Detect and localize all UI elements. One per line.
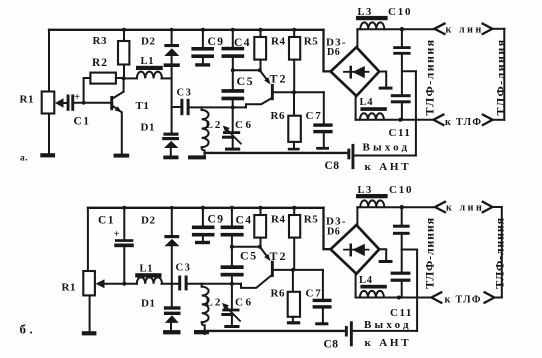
svg-text:D6: D6 xyxy=(327,227,340,238)
svg-text:ТЛФ-линия: ТЛФ-линия xyxy=(423,217,437,289)
svg-text:L3: L3 xyxy=(358,185,373,196)
inductor L4 core bar xyxy=(360,107,386,111)
R1 wiper arrowhead (b) xyxy=(96,279,105,288)
C6 bottom stub (b) xyxy=(231,316,233,326)
diode D2 triangle xyxy=(164,48,179,56)
wire R6 top lead (b) xyxy=(292,270,294,292)
wire L1 right to D node (b) xyxy=(162,283,179,285)
terminal arrow k LIN left (b) xyxy=(435,202,445,212)
svg-text:L2: L2 xyxy=(206,297,223,309)
inductor L3 core bar (b) xyxy=(356,194,388,198)
wire R5 bottom lead xyxy=(293,60,295,93)
diode D1 triangle (b) xyxy=(165,315,179,323)
svg-text:C3: C3 xyxy=(176,263,192,274)
wire emitter row (b) xyxy=(232,246,260,248)
transistor T2 emitter diagonal (b) xyxy=(260,247,268,257)
resistor R4 xyxy=(254,37,266,60)
L2 bottom bend (b) xyxy=(202,322,205,334)
wire L3 baseline (b) xyxy=(357,206,435,208)
R6 bottom stub (b) xyxy=(292,317,294,323)
wire C7 top lead (b) xyxy=(322,270,324,299)
wire C1 top lead (b) xyxy=(123,208,125,239)
wire C5 to C6 (b) xyxy=(231,277,233,309)
wire emitter row xyxy=(233,69,260,71)
wire output loop vertical xyxy=(415,71,417,155)
svg-text:ТЛФ-линия: ТЛФ-линия xyxy=(493,217,507,289)
terminal arrow k LIN left xyxy=(434,24,444,34)
bar under bridge right output xyxy=(379,87,393,90)
wire R1 bottom lead (b) xyxy=(89,295,91,331)
ground bar under C9 xyxy=(195,63,210,66)
C9 bottom stub (b) xyxy=(202,237,204,242)
wire TLF to right loop (b) xyxy=(494,297,502,299)
node TLF junction xyxy=(398,118,402,122)
capacitor C5 bottom plate (b) xyxy=(221,273,244,277)
capacitor C8 right plate (b) xyxy=(350,321,353,346)
node collector junction xyxy=(122,76,126,80)
resistor R6 xyxy=(288,116,301,142)
resistor R1 (potentiometer body) xyxy=(42,92,55,114)
capacitor C11 top plate xyxy=(391,94,411,97)
capacitor C3 left plate xyxy=(180,99,183,115)
svg-text:+: + xyxy=(114,229,120,240)
wire C1 bottom lead (b) xyxy=(123,247,125,284)
resistor R4 (b) xyxy=(254,215,266,238)
svg-text:C6: C6 xyxy=(235,297,253,309)
wire D2 to C3 node to D1 xyxy=(171,67,173,133)
trimmer C6 arrowhead xyxy=(223,126,230,133)
wire R4 top lead (b) xyxy=(260,208,262,215)
svg-text:C11: C11 xyxy=(389,127,412,139)
svg-text:C11: C11 xyxy=(390,307,413,319)
wire C10 to C11 xyxy=(401,55,403,94)
terminal arrow k LIN right xyxy=(483,24,493,34)
node row/C6 (b) xyxy=(230,282,234,286)
R6 bottom stub xyxy=(293,142,295,148)
svg-text:R1: R1 xyxy=(62,282,76,294)
capacitor C10 bottom plate (b) xyxy=(393,232,410,235)
svg-text:R6: R6 xyxy=(271,288,285,300)
capacitor C7 bottom plate (b) xyxy=(313,305,332,308)
svg-text:R4: R4 xyxy=(271,214,285,226)
inductor L2 windings (b) xyxy=(202,287,209,323)
capacitor C4 bottom plate (b) xyxy=(221,233,244,237)
svg-text:к лин: к лин xyxy=(446,203,484,214)
capacitor C11 bottom plate (b) xyxy=(391,279,411,282)
terminal arrow k TLF right xyxy=(483,115,493,125)
capacitor C9 bottom plate xyxy=(191,54,214,58)
wire L4 riser (b) xyxy=(355,274,357,298)
node rail/D2 xyxy=(170,28,174,32)
bar under C6 xyxy=(225,148,240,151)
wire right loop top (b) xyxy=(492,206,501,208)
capacitor C3 left plate (b) xyxy=(178,276,181,291)
resistor R5 xyxy=(289,37,300,60)
svg-text:D2: D2 xyxy=(141,36,155,48)
wire R4 bottom lead xyxy=(260,60,262,71)
wire C9 top lead xyxy=(202,30,204,47)
svg-text:L1: L1 xyxy=(140,264,154,275)
bar under C7 xyxy=(316,147,329,150)
diode D1 lower bar (b) xyxy=(164,312,181,315)
trimmer C6 top plate (b) xyxy=(222,309,239,312)
capacitor C10 top plate xyxy=(393,46,410,49)
svg-text:D1: D1 xyxy=(141,121,155,133)
D1 stem (b) xyxy=(170,323,172,330)
trimmer C6 arrow (b) xyxy=(225,306,240,321)
wire bridge right output xyxy=(379,72,386,87)
wire right loop vertical (b) xyxy=(501,207,503,298)
trimmer C6 bottom plate (b) xyxy=(221,313,233,316)
diode D1 triangle xyxy=(164,141,179,148)
C7 bottom stub (b) xyxy=(322,309,324,323)
svg-text:R5: R5 xyxy=(304,214,318,226)
wire C7 top lead xyxy=(323,92,325,123)
node rail/R5 xyxy=(292,28,296,32)
inductor L1 core bar (b) xyxy=(135,273,161,277)
wire right loop top xyxy=(492,28,504,30)
capacitor C7 bottom plate xyxy=(313,130,332,133)
node rail/C9 xyxy=(201,28,205,32)
svg-text:L4: L4 xyxy=(360,97,374,108)
svg-text:T2: T2 xyxy=(270,249,288,263)
inductor L2 top stub xyxy=(201,107,203,110)
svg-text:R5: R5 xyxy=(304,36,318,48)
svg-text:C10: C10 xyxy=(389,184,413,196)
wire rail corner to bridge xyxy=(324,30,331,72)
inductor L3 windings xyxy=(360,22,384,29)
wire C4 to C5 xyxy=(232,58,234,89)
wire C9 top lead (b) xyxy=(202,208,204,226)
node R4/emitter xyxy=(258,68,262,72)
capacitor C3 right plate xyxy=(187,99,190,115)
inductor L1 core bar xyxy=(136,66,163,70)
svg-text:C6: C6 xyxy=(235,119,253,131)
wire L3 baseline xyxy=(357,28,434,30)
wire R2 right lead xyxy=(116,77,124,79)
wire R5 bottom lead (b) xyxy=(293,238,295,270)
trimmer C6 bottom plate xyxy=(222,136,234,139)
bridge inner diode line (b) xyxy=(344,249,369,251)
capacitor C1 right plate xyxy=(71,95,74,111)
bridge inner diode triangle xyxy=(352,66,365,78)
inductor L2 top stub (b) xyxy=(201,284,203,287)
capacitor C4 top plate xyxy=(222,47,245,51)
capacitor C8 left plate xyxy=(347,149,350,160)
D2 stem xyxy=(171,56,173,63)
transistor T2 collector path xyxy=(246,98,272,108)
node rail/R4 xyxy=(259,28,263,32)
wire T1 collector vertical xyxy=(123,78,125,91)
node rail/R5 (b) xyxy=(292,206,296,210)
wire wiper row (b) xyxy=(104,283,137,285)
ground under L2 (b) xyxy=(194,330,209,334)
ground bar under C9 (b) xyxy=(195,241,210,244)
wire R5 top lead (b) xyxy=(293,208,295,215)
svg-text:C1: C1 xyxy=(98,215,115,227)
bridge inner diode bar (b) xyxy=(350,244,353,257)
bar under bridge right output (b) xyxy=(379,260,393,263)
node row/C6 xyxy=(231,105,235,109)
svg-text:C5: C5 xyxy=(240,249,258,263)
C7 bottom stub xyxy=(323,133,325,147)
diode D2 lower bar xyxy=(164,63,180,67)
ground under T1 emitter xyxy=(114,154,130,158)
C6 bottom stub xyxy=(232,139,234,148)
svg-text:D1: D1 xyxy=(141,298,155,310)
wire L4 baseline to TLF arrow xyxy=(356,119,434,121)
svg-text:R2: R2 xyxy=(92,57,108,69)
svg-text:L4: L4 xyxy=(359,275,373,286)
node base/R6 xyxy=(292,90,296,94)
R1 wiper arrowhead xyxy=(55,98,64,107)
capacitor C7 top plate (b) xyxy=(313,299,332,302)
capacitor C4 bottom plate xyxy=(222,54,245,58)
bridge inner diode bar xyxy=(350,66,353,79)
node rail/D2 (b) xyxy=(170,206,174,210)
svg-text:R1: R1 xyxy=(20,93,34,105)
capacitor C7 top plate xyxy=(313,123,332,126)
svg-text:Выход: Выход xyxy=(364,319,412,331)
diode D2 bar (b) xyxy=(164,235,179,238)
wire output loop vertical (b) xyxy=(416,250,418,331)
svg-text:а.: а. xyxy=(20,154,28,164)
wire L1 right to D2 node xyxy=(162,77,172,79)
wire R4 bottom lead (b) xyxy=(260,238,262,247)
resistor R3 xyxy=(118,41,129,65)
transistor T2 collector path (b) xyxy=(241,275,272,288)
svg-text:D2: D2 xyxy=(141,215,155,227)
bridge inner diode triangle (b) xyxy=(352,244,365,256)
svg-text:C10: C10 xyxy=(388,6,412,18)
resistor R2 xyxy=(90,73,116,84)
svg-text:D6: D6 xyxy=(327,47,340,58)
node R4/emitter (b) xyxy=(258,245,262,249)
wire C11 bottom lead xyxy=(401,103,403,119)
node emitter row left xyxy=(231,68,235,72)
svg-text:Выход: Выход xyxy=(363,142,411,154)
svg-text:C9: C9 xyxy=(208,214,225,226)
wire bridge right output (b) xyxy=(379,249,386,260)
svg-text:C3: C3 xyxy=(177,87,193,98)
transistor T2 base bar xyxy=(271,84,274,100)
capacitor C5 bottom plate xyxy=(222,97,245,101)
diode D1 lower bar xyxy=(162,137,179,140)
wire R5 top lead xyxy=(293,30,295,37)
wire R3 bottom lead xyxy=(123,65,125,79)
wire D2 top lead xyxy=(171,30,173,44)
svg-text:к АНТ: к АНТ xyxy=(365,161,412,173)
wire bottom rail of oscillator xyxy=(205,152,348,154)
wire left vertical rail to R1 (b) xyxy=(87,208,89,271)
capacitor C10 bottom plate xyxy=(393,52,410,55)
capacitor C10 top plate (b) xyxy=(393,225,410,228)
ground under R1 xyxy=(40,153,55,157)
wire C5 to C6 xyxy=(232,100,234,131)
diode D1 upper bar (b) xyxy=(164,306,181,309)
capacitor C4 top plate (b) xyxy=(221,226,244,230)
svg-text:к ТЛФ: к ТЛФ xyxy=(445,295,482,306)
bar under C6 (b) xyxy=(224,325,239,328)
svg-text:C8: C8 xyxy=(325,160,340,172)
terminal arrow k LIN right (b) xyxy=(483,202,493,212)
bridge D3-D6 diamond xyxy=(331,47,380,96)
svg-text:C7: C7 xyxy=(306,288,323,300)
node rail/C4 (b) xyxy=(230,206,234,210)
svg-text:к АНТ: к АНТ xyxy=(365,337,412,349)
node TLF junction (b) xyxy=(397,296,401,300)
inductor L3 core bar xyxy=(356,16,388,20)
capacitor C11 top plate (b) xyxy=(391,272,411,275)
wire TLF to right loop xyxy=(493,119,505,121)
svg-text:R3: R3 xyxy=(93,35,107,47)
inductor L4 core bar (b) xyxy=(360,285,386,289)
capacitor C11 bottom plate xyxy=(391,100,411,103)
wire C3 left lead xyxy=(172,106,181,108)
wire oscillator row xyxy=(190,106,246,108)
inductor L4 windings (b) xyxy=(360,291,384,298)
wire T2 base row xyxy=(274,91,324,93)
transistor T1 emitter diagonal xyxy=(113,106,121,111)
bar under C7 (b) xyxy=(315,322,328,325)
wire bottom rail (b) xyxy=(205,330,345,332)
capacitor C9 bottom plate (b) xyxy=(192,233,215,237)
wire R1 bottom lead xyxy=(48,114,50,154)
svg-text:R4: R4 xyxy=(271,36,285,48)
wire right loop vertical xyxy=(503,29,505,120)
transistor T1 base bar xyxy=(110,96,113,110)
terminal arrow k TLF left (b) xyxy=(431,292,441,302)
T2 emitter arrowhead (b) xyxy=(264,254,270,261)
svg-text:б.: б. xyxy=(20,322,37,337)
bar under R6 (b) xyxy=(287,321,300,324)
svg-text:ТЛФ-линия: ТЛФ-линия xyxy=(423,38,437,115)
diode D2 cathode bar xyxy=(164,44,179,47)
transistor T2 emitter diagonal xyxy=(260,70,268,80)
wire D2 to row (b) xyxy=(171,246,173,284)
transistor T1 collector diagonal xyxy=(113,92,124,99)
capacitor C1 thick plate (b) xyxy=(114,244,134,248)
wire L4 baseline to TLF arrow (b) xyxy=(356,297,432,299)
wire C8 to output loop (b) xyxy=(353,330,417,332)
capacitor C1 thin plate (b) xyxy=(115,239,133,242)
wire R4 top lead xyxy=(260,30,262,37)
bridge D3-D6 diamond (b) xyxy=(331,225,380,274)
C9 bottom stub xyxy=(202,58,204,63)
node base/R6 (b) xyxy=(291,268,295,272)
resistor R1 (b) xyxy=(83,271,95,295)
trimmer C6 arrow xyxy=(226,128,241,143)
node LIN junction (b) xyxy=(400,205,404,209)
node rail/R3 xyxy=(122,28,126,32)
capacitor C1 left plate xyxy=(67,95,70,111)
wire top supply rail (b) xyxy=(88,207,324,209)
inductor L2 windings xyxy=(202,110,209,147)
D1 stem xyxy=(170,148,172,156)
T1 emitter arrowhead xyxy=(115,106,122,112)
diode D2 triangle (b) xyxy=(164,239,179,246)
wire C1 to T1 base xyxy=(74,102,110,104)
transistor T2 base bar (b) xyxy=(271,261,274,277)
wire C11 bottom lead (b) xyxy=(401,282,403,298)
svg-text:R6: R6 xyxy=(271,110,285,122)
terminal arrow k TLF left xyxy=(433,115,443,125)
svg-text:+: + xyxy=(74,92,80,103)
capacitor C5 top plate (b) xyxy=(221,265,244,269)
node base/R2 junction xyxy=(82,101,86,105)
wire R3 top lead xyxy=(123,30,125,41)
bar under R6 xyxy=(288,148,300,151)
capacitor C8 right plate xyxy=(352,144,355,169)
T2 emitter arrowhead xyxy=(264,77,270,84)
trimmer C6 top plate xyxy=(223,131,240,134)
capacitor C8 left plate (b) xyxy=(345,326,348,337)
resistor R6 (b) xyxy=(288,292,300,317)
ground under D1 (b) xyxy=(163,330,180,334)
svg-text:к ТЛФ: к ТЛФ xyxy=(445,117,482,128)
wire C4 top lead xyxy=(232,30,234,47)
node emitter row left (b) xyxy=(230,245,234,249)
wire R2 left lead xyxy=(84,78,91,103)
wire oscillator row (b) xyxy=(188,283,241,285)
wire C10 top lead xyxy=(401,29,403,46)
capacitor C9 top plate xyxy=(191,47,214,51)
inductor L3 windings (b) xyxy=(360,200,384,207)
terminal arrow k TLF right (b) xyxy=(485,292,495,302)
wire rail corner to bridge (b) xyxy=(324,208,331,249)
bridge inner diode line xyxy=(344,71,369,73)
node rail/R4 (b) xyxy=(259,206,263,210)
svg-text:C4: C4 xyxy=(236,215,253,227)
wire left vertical from rail to R1 xyxy=(48,30,50,92)
wire C8 to output loop xyxy=(354,155,416,157)
trimmer C6 arrowhead (b) xyxy=(222,303,229,310)
capacitor C9 top plate (b) xyxy=(192,226,215,230)
svg-text:C1: C1 xyxy=(74,116,91,128)
resistor R5 (b) xyxy=(289,215,300,238)
wire link C10/C11 junction xyxy=(402,70,416,72)
inductor L1 windings (b) xyxy=(137,277,162,284)
wire L3 riser to bridge top (b) xyxy=(356,207,358,225)
svg-text:ТЛФ-линия: ТЛФ-линия xyxy=(494,38,508,115)
node rail/C1 (b) xyxy=(122,206,126,210)
svg-text:T1: T1 xyxy=(136,100,150,112)
node LIN junction xyxy=(400,27,404,31)
node wiper/C1 junction (b) xyxy=(122,282,126,286)
wire D2 top lead (b) xyxy=(171,208,173,235)
wire T1 emitter down xyxy=(121,112,123,153)
L2 bottom bend xyxy=(202,147,205,157)
svg-text:к лин: к лин xyxy=(446,24,484,35)
wire junction to L1 xyxy=(124,77,137,79)
ground under R1 (b) xyxy=(82,331,97,335)
wire link C10/C11 junction (b) xyxy=(402,249,417,251)
capacitor C3 right plate (b) xyxy=(185,276,188,291)
wire C10 to C11 (b) xyxy=(401,235,403,272)
svg-text:C5: C5 xyxy=(237,74,255,88)
node rail/C4 xyxy=(231,28,235,32)
inductor L1 windings xyxy=(137,72,162,79)
ground under L2 xyxy=(188,155,206,159)
svg-text:C4: C4 xyxy=(234,37,251,49)
wire C4 to C5 (b) xyxy=(231,237,233,266)
wire C4 top lead (b) xyxy=(231,208,233,226)
ground under D1 xyxy=(163,156,178,160)
wire L3 riser to bridge top xyxy=(356,29,358,47)
wire L4 riser from bridge bottom xyxy=(355,96,357,120)
wire wiper to C1 xyxy=(63,102,67,104)
diode D1 upper bar xyxy=(163,133,178,136)
